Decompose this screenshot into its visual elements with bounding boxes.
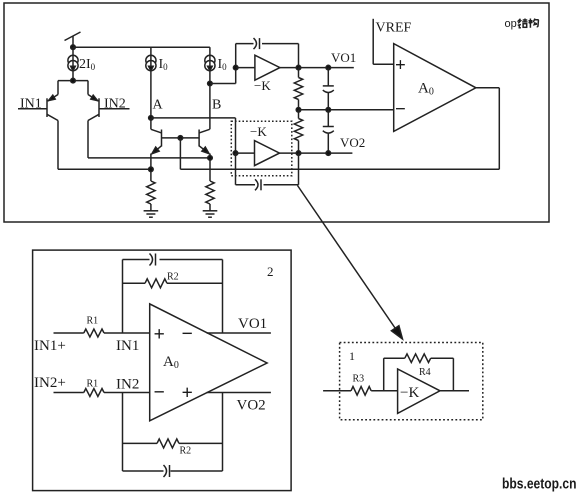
label VO2 (340, 135, 365, 150)
wire base feedback (180, 88, 499, 170)
label 1 (349, 349, 355, 363)
svg-text:−: − (182, 323, 193, 345)
wire bottom feedback left (122, 393, 124, 472)
label VO2 box2 (237, 398, 266, 414)
node -K2 input (233, 151, 238, 156)
outer box op-structure frame (4, 3, 549, 222)
svg-text:I0: I0 (218, 57, 228, 72)
svg-text:VREF: VREF (376, 21, 412, 36)
wire box1 input (323, 390, 351, 392)
label I0 right (218, 57, 228, 72)
wire bottom R2 line (123, 442, 223, 444)
svg-text:R1: R1 (87, 316, 99, 327)
resistor R1 top (84, 329, 104, 337)
wire IN1 collector (58, 121, 151, 170)
wire -K1 feedback (236, 44, 299, 68)
op-amp -K1 (255, 55, 280, 80)
svg-text:R2: R2 (167, 272, 179, 283)
svg-text:1: 1 (349, 349, 355, 363)
wire -K2 output (280, 152, 299, 154)
wire input 1 (54, 332, 84, 334)
label op-jiegou (505, 18, 539, 30)
resistor R4 (405, 354, 431, 363)
resistor R1 bottom (84, 389, 104, 397)
svg-text:IN1: IN1 (116, 338, 139, 354)
current source I0 left (146, 47, 156, 118)
resistor R_b (294, 110, 302, 153)
label A0 main (418, 81, 434, 98)
label VO1 box2 (238, 316, 267, 332)
svg-text:−: − (154, 382, 165, 404)
label VO1 (331, 50, 356, 65)
wire Q1 emitter (149, 154, 154, 182)
supply terminal tick (65, 32, 81, 47)
svg-text:+: + (182, 382, 193, 404)
label 2I0 (79, 57, 96, 72)
label plus bottom (182, 382, 193, 404)
wire emitter rail (58, 78, 88, 83)
capacitor C_f1 (150, 254, 156, 266)
label R2 top (167, 272, 179, 283)
box 2 frame (33, 250, 292, 491)
wire node B to -K1 input (210, 44, 236, 84)
wire R4 loop (384, 358, 454, 391)
svg-text:−: − (395, 99, 406, 120)
wire input 2 (54, 392, 84, 394)
label IN1+ (34, 338, 66, 354)
wire IN2 collector (88, 121, 210, 158)
svg-text:+: + (154, 324, 165, 346)
resistor R_a (294, 68, 302, 110)
resistor RE1 (147, 181, 155, 211)
capacitor C_b (323, 110, 334, 153)
wire Q2 emitter (208, 154, 213, 182)
ground right (203, 211, 218, 217)
transistor IN2 (PNP) (88, 81, 130, 121)
capacitor C1 (-K1 feedback) (254, 38, 260, 49)
svg-text:op: op (505, 18, 517, 30)
svg-text:VO1: VO1 (238, 316, 267, 332)
wire -K1 output (280, 67, 299, 69)
label IN1 box2 (116, 338, 139, 354)
label A (153, 98, 164, 113)
svg-text:VO1: VO1 (331, 50, 356, 65)
svg-text:IN2+: IN2+ (34, 375, 66, 391)
resistor R2 top (145, 279, 167, 288)
wire mid to op-amp minus (299, 108, 394, 113)
node -K1 input (233, 65, 238, 70)
label VREF (376, 21, 412, 36)
label plus input (395, 55, 406, 76)
label R3 (353, 374, 365, 385)
label A0 box2 (163, 354, 179, 371)
wire -K2 feedback (236, 153, 299, 185)
node VO2 (296, 151, 352, 156)
wire box1 output (440, 390, 469, 392)
op-amp -K2 (255, 141, 280, 166)
svg-text:−K: −K (250, 124, 267, 139)
ground left (144, 211, 159, 217)
wire node A to -K2 input (151, 118, 236, 153)
label R1 top (87, 316, 99, 327)
label I0 left (159, 57, 169, 72)
label -K1 (254, 78, 271, 93)
label IN2+ (34, 375, 66, 391)
svg-text:IN1+: IN1+ (34, 338, 66, 354)
resistor RE2 (206, 181, 214, 211)
svg-text:2I0: 2I0 (79, 57, 96, 72)
transistor Q2 (NPN right) (199, 129, 210, 153)
wire top feedback right (222, 260, 224, 334)
svg-text:R3: R3 (353, 374, 365, 385)
svg-text:VO2: VO2 (340, 135, 365, 150)
svg-text:R4: R4 (419, 367, 431, 378)
current source 2I0 (68, 47, 78, 80)
node VO1 (296, 65, 354, 70)
label -K3 (400, 385, 419, 401)
wire top feedback left (122, 260, 124, 334)
label -K2 (250, 124, 267, 139)
label R4 (419, 367, 431, 378)
label R1 bottom (87, 379, 99, 390)
svg-text:R2: R2 (180, 446, 192, 457)
svg-text:B: B (212, 98, 221, 113)
svg-text:IN2: IN2 (116, 377, 139, 393)
label IN2 (104, 97, 126, 112)
transistor IN1 (PNP) (18, 81, 58, 121)
svg-text:IN2: IN2 (104, 97, 126, 112)
capacitor C_a (323, 68, 334, 110)
transistor Q1 (NPN left) (151, 118, 162, 154)
svg-text:A: A (153, 98, 164, 113)
wire input 2b (104, 392, 150, 394)
label minus bottom (154, 382, 165, 404)
resistor R2 bottom (157, 439, 179, 448)
wire top R2 line (123, 282, 223, 284)
svg-text:−K: −K (254, 78, 271, 93)
node B junction (208, 81, 213, 86)
label 2 (267, 264, 274, 279)
node A (149, 116, 154, 121)
wire Q1-Q2 bases (162, 136, 200, 141)
label plus top (154, 324, 165, 346)
wire bottom cap line (123, 470, 223, 472)
svg-text:−K: −K (400, 385, 419, 401)
capacitor C_f2 (164, 465, 170, 477)
label minus input (395, 99, 406, 120)
svg-text:2: 2 (267, 264, 274, 279)
resistor R3 (351, 387, 371, 396)
dotted box 1 (340, 343, 483, 420)
dashed box around -K2 (231, 121, 291, 176)
op-amp A0 main (394, 44, 476, 132)
wire box1 input b (371, 390, 397, 392)
current source I0 right (205, 47, 215, 129)
wire input 1b (104, 332, 150, 334)
wire VO2 box2 (207, 392, 271, 394)
wire bottom feedback right (222, 393, 224, 472)
svg-text:R1: R1 (87, 379, 99, 390)
wire VREF (373, 19, 394, 65)
label minus top (182, 323, 193, 345)
arrow to detail 1 (298, 186, 403, 340)
op-amp -K3 (398, 369, 440, 413)
label R2 bottom (180, 446, 192, 457)
label IN1 (20, 97, 42, 112)
svg-text:I0: I0 (159, 57, 169, 72)
wire -K1 input (236, 67, 255, 69)
wire -K2 input (236, 152, 255, 154)
watermark bbs.eetop.cn (502, 477, 577, 493)
capacitor C2 (-K2 feedback) (255, 179, 261, 190)
label B (212, 98, 221, 113)
svg-text:IN1: IN1 (20, 97, 42, 112)
wire top cap line (123, 259, 223, 261)
svg-text:bbs.eetop.cn: bbs.eetop.cn (502, 477, 577, 493)
op-amp A0 box2 (150, 304, 267, 421)
label IN2 box2 (116, 377, 139, 393)
node supply rail (71, 45, 210, 50)
node mid (296, 108, 301, 113)
wire VO1 box2 (207, 332, 271, 334)
svg-text:VO2: VO2 (237, 398, 266, 414)
svg-text:+: + (395, 55, 406, 76)
